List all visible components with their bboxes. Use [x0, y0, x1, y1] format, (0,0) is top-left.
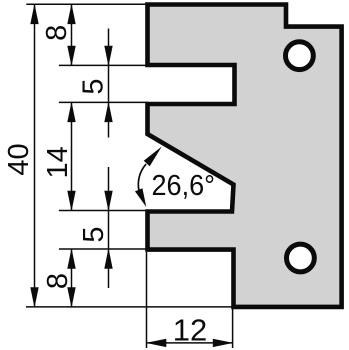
svg-text:8: 8 [42, 273, 74, 289]
svg-text:8: 8 [41, 25, 73, 41]
dimension 40 arrow up [30, 4, 38, 25]
dimension 14 label [42, 146, 74, 178]
svg-text:26,6°: 26,6° [152, 170, 216, 202]
dimension 8 bottom arrow up [67, 248, 75, 269]
extension line top (y=4.5) [26, 3, 146, 5]
dimension 8 top label [41, 25, 73, 41]
dimension 14 arrow down [67, 191, 75, 212]
dimension 5 bottom label [78, 227, 110, 243]
dimension 5 bottom arrow up (below) [104, 248, 112, 269]
dimension 8 bottom arrow down [67, 287, 75, 308]
dimension 40 line [34, 4, 36, 307]
dimension 14 arrow up [67, 102, 75, 123]
extension line slot1 top (y=65.4) [59, 64, 148, 66]
dimension 12 arrow right [213, 339, 234, 347]
svg-text:40: 40 [3, 143, 35, 175]
dimension 5 top label [78, 79, 110, 95]
svg-text:5: 5 [78, 227, 110, 243]
dimension 8 top line [71, 4, 73, 65]
dimension 8 bottom line [71, 249, 73, 307]
dimension 12 line [147, 342, 233, 344]
dimension 5 bottom line with outside arrows [108, 167, 110, 288]
bolt hole bottom [287, 244, 315, 272]
extension line slot1 bottom (y=102.4) [59, 101, 148, 103]
bolt hole top [286, 42, 314, 70]
angle arc 26.6 degrees [138, 164, 146, 191]
dimension 14 line [71, 102, 73, 210]
extension line bottom (y=306.4) [26, 306, 232, 308]
angle arc arrow top [144, 147, 162, 167]
svg-text:14: 14 [42, 146, 74, 178]
svg-text:5: 5 [78, 79, 110, 95]
dimension 8 top arrow up [67, 4, 75, 25]
dimension 5 top line with outside arrows [108, 29, 110, 138]
dimension 5 top arrow up (below) [104, 102, 112, 123]
svg-text:12: 12 [173, 312, 207, 347]
dimension 5 top arrow down (above) [104, 46, 112, 66]
extension line 12 left (x=146.5) [146, 252, 148, 348]
dimension 8 top arrow down [67, 46, 75, 66]
extension line 12 right (x=232.6) [232, 309, 234, 348]
dimension 40 label [3, 143, 35, 175]
dimension 12 arrow left [146, 339, 167, 347]
profile body outline [148, 5, 342, 307]
dimension 8 bottom label [42, 273, 74, 289]
dimension 40 arrow down [30, 287, 38, 308]
extension line notch bottom (y=210.5) [59, 210, 150, 212]
angle arc arrow bottom [135, 188, 146, 207]
dimension 5 bottom arrow down (above) [104, 191, 112, 212]
extension line slot2 top (y=249) [59, 248, 150, 250]
